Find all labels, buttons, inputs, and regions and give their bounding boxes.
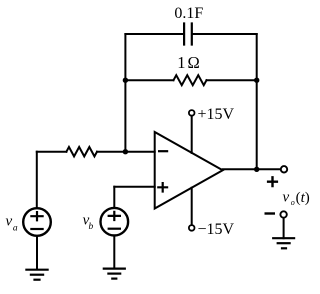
wire vb vertical [113, 187, 115, 208]
terminal circle output top [281, 166, 287, 172]
svg-text:+15V: +15V [198, 106, 235, 123]
ground output right [272, 238, 295, 248]
wire va source bottom [36, 236, 38, 270]
op-amp plus input symbol [157, 182, 168, 193]
wire 1ohm branch right [207, 79, 257, 81]
source Va circle [23, 208, 51, 236]
source Vb minus sign [108, 228, 121, 230]
ground below Va [25, 270, 48, 280]
source Vb plus sign [108, 211, 121, 221]
svg-text:0.1F: 0.1F [174, 5, 203, 22]
svg-text:−15V: −15V [198, 221, 235, 238]
output minus polarity mark [265, 212, 276, 214]
ground below Vb [103, 269, 126, 279]
terminal circle -15V [189, 225, 195, 231]
node A junction dot left-top [123, 78, 128, 83]
wire top capacitor branch left [125, 33, 183, 35]
svg-text:b: b [89, 222, 94, 232]
op-amp U1 triangle [155, 132, 223, 209]
svg-text:o: o [291, 198, 295, 207]
wire 1ohm branch left [125, 79, 173, 81]
svg-text:a: a [13, 224, 18, 234]
node inverting input junction dot [123, 149, 128, 154]
wire left vertical feedback [124, 34, 126, 152]
source Va minus sign [30, 228, 43, 230]
capacitor C plates [184, 24, 192, 45]
resistor R1 1ohm zigzag [174, 75, 207, 85]
wire top capacitor branch right [193, 33, 257, 35]
terminal circle output bottom [280, 211, 286, 217]
wire output terminal to ground [283, 219, 285, 239]
wire right vertical feedback [256, 34, 258, 169]
wire inverting input left [37, 151, 67, 153]
wire vb source bottom [113, 236, 115, 269]
output plus polarity mark [267, 176, 278, 187]
wire +15V supply [191, 116, 193, 152]
wire va vertical [36, 152, 38, 208]
svg-text:v: v [6, 214, 13, 230]
node output junction dot [254, 167, 259, 172]
svg-text:(t): (t) [296, 190, 310, 206]
wire -15V supply [191, 188, 193, 225]
svg-text:1Ω: 1Ω [177, 53, 202, 72]
source Vb circle [101, 208, 129, 236]
source Va plus sign [30, 211, 43, 221]
wire vb horizontal noninverting [114, 186, 154, 188]
wire output [223, 168, 280, 170]
op-amp minus input symbol [158, 150, 168, 152]
node junction dot right-top [254, 78, 259, 83]
resistor R2 input zigzag [66, 147, 97, 156]
terminal circle +15V [189, 110, 195, 116]
wire inverting input right [97, 151, 155, 153]
svg-text:v: v [283, 190, 290, 206]
